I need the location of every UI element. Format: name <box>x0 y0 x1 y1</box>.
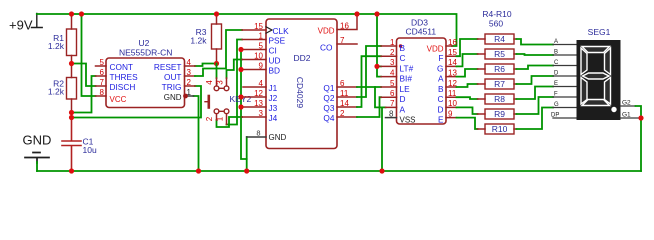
svg-text:Q4: Q4 <box>323 113 334 123</box>
wire DD3 pin 7 A branch to bottom rail <box>381 107 383 171</box>
wire R1-R2 junction to 555 pin 7 DISCH <box>72 64 96 87</box>
wire GND symbol to bottom rail <box>36 162 38 171</box>
U2 left pin stubs 5 6 7 8 <box>96 66 107 96</box>
node +9V power symbol <box>32 14 43 28</box>
svg-text:DISCH: DISCH <box>110 82 136 92</box>
pushbutton switch KEY2 contacts <box>214 86 229 114</box>
svg-text:2: 2 <box>390 48 395 57</box>
wire DD3 G to R5 <box>457 54 478 66</box>
node junction DD2 GND rail <box>244 168 249 173</box>
SEG1 digit segments <box>581 47 611 106</box>
svg-text:R10: R10 <box>492 124 508 134</box>
svg-text:CD4029: CD4029 <box>295 77 305 108</box>
DD3 pin 1 marker dot <box>399 44 402 47</box>
wire G2 to G1 link <box>636 106 642 118</box>
svg-text:J3: J3 <box>269 103 278 113</box>
wire R10 to display pin G <box>517 108 554 130</box>
resistor R10 <box>478 124 517 134</box>
resistor R6 <box>478 64 517 74</box>
svg-text:CLK: CLK <box>273 26 290 36</box>
wire bottom ground rail <box>37 170 641 172</box>
node junction C1 bottom rail <box>69 168 74 173</box>
svg-text:8: 8 <box>256 129 260 138</box>
svg-text:VSS: VSS <box>400 116 416 125</box>
svg-text:GND: GND <box>23 133 52 148</box>
svg-text:2: 2 <box>340 109 345 118</box>
wire R9 to display pin F <box>517 97 554 114</box>
DD2 clock pin wedge <box>266 27 272 33</box>
svg-text:GND: GND <box>269 133 287 142</box>
DD3 pin numbers left <box>389 38 395 119</box>
wire DD2 Q2 to DD3 pin 1 B <box>357 46 381 97</box>
wire 555 pin 1 GND to bottom rail <box>194 96 199 171</box>
DD2 pin numbers left <box>254 22 263 118</box>
svg-text:SEG1: SEG1 <box>588 27 611 37</box>
svg-text:Q3: Q3 <box>323 103 334 113</box>
node junction bus J2 <box>238 94 243 99</box>
svg-text:VDD: VDD <box>427 45 444 54</box>
op-amp U2 555 timer body <box>106 58 185 108</box>
svg-text:8: 8 <box>389 109 394 118</box>
node 555 pin1 junction dot <box>183 94 188 99</box>
svg-text:A: A <box>400 104 406 114</box>
svg-text:B: B <box>554 50 558 56</box>
node junction top rail DD2 VDD <box>354 11 359 16</box>
svg-text:C: C <box>554 60 559 66</box>
svg-text:U2: U2 <box>139 38 150 48</box>
svg-text:LE: LE <box>400 84 411 94</box>
resistor R1 <box>48 15 77 64</box>
capacitor C1 <box>62 118 97 170</box>
svg-text:3: 3 <box>390 58 395 67</box>
DD2 pin 8 GND stub <box>247 136 266 138</box>
resistor R3 <box>190 14 221 64</box>
wire Q1 branch down to DD3 pin 7 A <box>375 87 386 107</box>
svg-text:R9: R9 <box>494 109 505 119</box>
svg-text:THRES: THRES <box>110 72 139 82</box>
svg-text:16: 16 <box>448 38 457 47</box>
node junction bus J3 <box>238 104 243 109</box>
wire DD3 F to R4 <box>457 39 478 56</box>
svg-text:D: D <box>554 71 559 77</box>
wire G1 to bottom rail <box>640 118 642 171</box>
svg-text:4: 4 <box>259 79 264 88</box>
wire R3 junction down to switch pin 4 <box>216 64 218 79</box>
node junction top rail VCC drop <box>79 11 84 16</box>
svg-text:R5: R5 <box>494 49 505 59</box>
node junction A branch rail <box>379 168 384 173</box>
wire R8 to display pin E <box>517 87 554 100</box>
svg-text:C: C <box>438 94 444 104</box>
wire R7 to display pin D <box>517 76 554 84</box>
node junction RESET R3 switch <box>214 61 219 66</box>
svg-text:1: 1 <box>259 31 264 40</box>
node junction LT tap <box>374 64 379 69</box>
node junction R1-R2 DISCH <box>69 61 74 66</box>
svg-text:R8: R8 <box>494 94 505 104</box>
svg-text:J4: J4 <box>269 113 278 123</box>
node junction top rail R1 <box>69 11 74 16</box>
svg-text:VCC: VCC <box>110 95 127 104</box>
svg-text:1.2k: 1.2k <box>48 41 65 51</box>
DD2 left pin stubs <box>241 30 266 117</box>
svg-text:1: 1 <box>215 116 224 121</box>
svg-text:1.2k: 1.2k <box>190 36 207 46</box>
DD3 pin 8 VSS stub <box>386 117 397 119</box>
svg-text:E: E <box>438 115 444 125</box>
node junction bus BD <box>238 67 243 72</box>
svg-text:R6: R6 <box>494 64 505 74</box>
svg-text:R4: R4 <box>494 34 505 44</box>
svg-text:BI#: BI# <box>400 74 413 84</box>
svg-text:G: G <box>437 63 443 73</box>
resistor R9 <box>478 109 517 119</box>
svg-text:6: 6 <box>100 68 105 77</box>
U2 pin numbers right <box>187 58 192 97</box>
resistor R7 <box>478 79 517 89</box>
svg-text:4: 4 <box>390 68 395 77</box>
wire 555 OUT to DD2 pin 15 CLK <box>195 30 242 76</box>
svg-text:3: 3 <box>187 68 192 77</box>
svg-text:560: 560 <box>489 19 503 29</box>
wire DD3 C to R8 <box>457 97 478 99</box>
svg-text:5: 5 <box>259 41 264 50</box>
wire R2-C1 junction to 555 pin 2 TRIG <box>72 86 202 118</box>
wire DD2 Q4 to DD3 pin 6 D <box>357 97 381 117</box>
resistor R8 <box>478 94 517 104</box>
svg-text:F: F <box>438 53 443 63</box>
wire DD2 pin 8 GND to bottom rail <box>246 137 248 171</box>
DD3 right pin stubs <box>446 46 457 118</box>
svg-text:14: 14 <box>340 99 349 108</box>
svg-text:2: 2 <box>187 78 192 87</box>
pushbutton switch KEY2 actuator bar <box>205 96 209 108</box>
svg-text:VDD: VDD <box>318 27 335 36</box>
svg-text:4: 4 <box>187 58 192 67</box>
IC DD3 CD4511 body <box>397 38 447 124</box>
svg-text:D: D <box>438 104 444 114</box>
svg-text:B: B <box>438 84 444 94</box>
DD3 left pin stubs <box>381 46 397 107</box>
svg-text:11: 11 <box>448 89 457 98</box>
svg-text:5: 5 <box>100 58 105 67</box>
wire VCC net rail to 555 pin 8 <box>82 14 96 96</box>
svg-text:PSE: PSE <box>269 36 286 46</box>
svg-text:15: 15 <box>254 22 263 31</box>
svg-text:Q2: Q2 <box>323 93 334 103</box>
svg-text:A: A <box>438 74 444 84</box>
svg-text:1: 1 <box>187 88 192 97</box>
svg-text:10u: 10u <box>83 145 97 155</box>
SEG1 decimal point <box>611 107 616 112</box>
svg-text:E: E <box>554 81 558 87</box>
DD3 pin numbers right <box>448 38 457 119</box>
svg-text:9: 9 <box>448 109 453 118</box>
wire switch pin 2 to DD2 pin 3 J4 <box>217 117 243 127</box>
node junction 555 GND rail <box>196 168 201 173</box>
wire R5 to display pin B <box>517 54 554 55</box>
svg-text:9: 9 <box>259 61 264 70</box>
node junction bus CI <box>238 47 243 52</box>
SEG1 pin G1 stub <box>621 117 642 119</box>
wire DD2 pin 1 PSE to switch pin 1 <box>227 40 243 125</box>
svg-text:+9V: +9V <box>9 18 33 33</box>
svg-text:J1: J1 <box>269 83 278 93</box>
ground symbol GND <box>25 153 49 164</box>
IC DD2 CD4029 body <box>266 19 337 149</box>
wire DD3 A to R6 <box>457 69 478 77</box>
wire +9V top rail <box>37 14 457 46</box>
svg-text:G2: G2 <box>622 100 631 107</box>
svg-text:5: 5 <box>390 79 395 88</box>
node junction TRIG/C1 tap <box>69 115 74 120</box>
svg-text:2: 2 <box>205 116 214 121</box>
svg-text:6: 6 <box>340 79 345 88</box>
node junction G1 G2 <box>638 115 643 120</box>
resistor R2 <box>48 64 77 120</box>
svg-text:13: 13 <box>254 99 263 108</box>
svg-text:GND: GND <box>164 93 182 102</box>
svg-text:CONT: CONT <box>110 62 134 72</box>
DD2 pin numbers right <box>340 21 349 118</box>
wire R6 to display pin C <box>517 66 554 70</box>
node junction top rail R3 <box>214 11 219 16</box>
svg-text:1: 1 <box>390 38 395 47</box>
svg-text:TRIG: TRIG <box>162 82 182 92</box>
SEG1 pin G2 stub <box>621 105 636 107</box>
svg-text:6: 6 <box>390 89 395 98</box>
wire 555 pin 4 RESET to R3 junction <box>195 64 217 67</box>
wire R2-C1 junction to 555 pin 6 THRES <box>72 76 96 113</box>
resistor R4 <box>478 34 517 44</box>
svg-text:1.2k: 1.2k <box>48 86 65 96</box>
svg-text:F: F <box>554 92 558 98</box>
wire top rail to DD3 LT BI pins <box>377 14 381 77</box>
U2 right pin stubs 4 3 2 <box>185 66 196 86</box>
svg-text:A: A <box>554 39 558 45</box>
wire DD2 Q3 to DD3 pin 2 C <box>357 56 381 107</box>
svg-text:12: 12 <box>254 89 263 98</box>
svg-text:D: D <box>400 94 406 104</box>
svg-text:G: G <box>554 102 559 108</box>
U2 pin numbers left <box>100 58 105 97</box>
svg-text:C: C <box>400 53 406 63</box>
U2 pin 1 GND stub <box>185 95 194 97</box>
svg-text:8: 8 <box>100 88 105 97</box>
wire LT branch <box>377 65 381 67</box>
svg-text:G1: G1 <box>622 112 631 119</box>
svg-text:16: 16 <box>340 21 349 30</box>
wire DD3 D to R9 <box>457 107 478 114</box>
svg-text:11: 11 <box>340 89 349 98</box>
svg-text:B: B <box>400 43 406 53</box>
svg-text:R4-R10: R4-R10 <box>482 9 512 19</box>
svg-text:RESET: RESET <box>154 62 182 72</box>
svg-text:UD: UD <box>269 56 281 66</box>
svg-text:LT#: LT# <box>400 63 414 73</box>
node junction THRES tap <box>69 110 74 115</box>
svg-text:DP: DP <box>551 113 559 119</box>
resistor R5 <box>478 49 517 59</box>
svg-text:DD2: DD2 <box>294 53 311 63</box>
svg-text:7: 7 <box>390 99 395 108</box>
wire DD2 pin 16 VDD to top rail <box>337 14 357 30</box>
wire CI BD J2 J3 common bus to bottom rail <box>241 50 247 160</box>
svg-text:7: 7 <box>100 78 105 87</box>
svg-text:10: 10 <box>254 51 263 60</box>
transistor-free pushbutton switch KEY2 leads <box>217 78 227 125</box>
svg-text:4: 4 <box>205 80 214 85</box>
wire DD3 E to R10 <box>457 118 478 129</box>
svg-text:3: 3 <box>215 80 224 85</box>
wire DD2 Q1 across to DD3 pin 5 LE <box>357 86 381 88</box>
wire R4 to display pin A <box>517 39 554 45</box>
svg-text:BD: BD <box>269 66 281 76</box>
svg-text:7: 7 <box>340 36 345 45</box>
svg-text:Q1: Q1 <box>323 83 334 93</box>
wire DD3 B to R7 <box>457 84 478 87</box>
svg-text:R7: R7 <box>494 79 505 89</box>
DD2 right pin stubs <box>337 44 357 117</box>
SEG1 display pin stubs left <box>553 45 577 119</box>
svg-text:NE555DR-CN: NE555DR-CN <box>119 48 172 58</box>
svg-text:CO: CO <box>320 43 333 53</box>
svg-text:CI: CI <box>269 46 277 56</box>
wire DD2 pin 10 UD to switch pin 3 <box>227 60 243 79</box>
svg-text:J2: J2 <box>269 93 278 103</box>
seven segment display SEG1 body <box>577 40 621 120</box>
node junction top rail LT BI drop <box>374 11 379 16</box>
svg-text:CD4511: CD4511 <box>406 27 437 37</box>
svg-text:OUT: OUT <box>164 72 182 82</box>
svg-text:3: 3 <box>259 109 264 118</box>
